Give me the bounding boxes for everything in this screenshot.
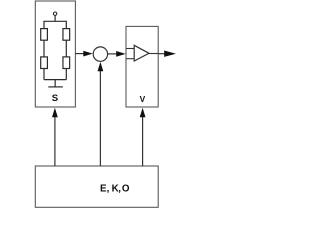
- wire amp output: [149, 53, 158, 55]
- output arrow: [158, 51, 176, 57]
- block E,K,O (influence quantities box): [35, 166, 158, 207]
- block S (sensor box): [35, 1, 75, 107]
- wire amp input upper: [126, 48, 134, 50]
- label E, K, O: [100, 184, 130, 195]
- label V: [140, 94, 146, 104]
- svg-text:S: S: [52, 93, 59, 104]
- wire terminal to top rail: [54, 16, 56, 22]
- resistor R4: [63, 57, 70, 69]
- wire right branch lower: [65, 69, 67, 80]
- summing junction: [93, 47, 107, 61]
- wire junction to amplifier arrow: [108, 51, 126, 57]
- wire S output arrow to junction: [75, 51, 92, 57]
- wire amp input lower: [126, 58, 134, 60]
- wire left branch lower: [43, 69, 45, 80]
- resistor R3: [63, 29, 70, 41]
- block V (amplifier box): [126, 26, 158, 107]
- op-amp triangle: [134, 45, 149, 61]
- wire rail to ground: [54, 80, 56, 87]
- resistor R1: [41, 29, 48, 41]
- resistor R2: [41, 57, 48, 69]
- wire left branch middle: [43, 40, 45, 57]
- svg-text:V: V: [140, 94, 146, 104]
- wire top rail: [44, 20, 66, 22]
- wire E,K,O to V arrow: [140, 108, 146, 166]
- label S: [52, 93, 59, 104]
- svg-text:E,K,O: E,K,O: [100, 184, 130, 195]
- wire bottom rail: [44, 79, 66, 81]
- ground: [48, 86, 63, 88]
- wire right branch upper: [65, 21, 67, 29]
- wire right branch middle: [65, 40, 67, 57]
- wire E,K,O to S arrow: [52, 108, 58, 166]
- bridge supply terminal: [53, 12, 56, 15]
- wire left branch upper: [43, 21, 45, 29]
- wire E,K,O to junction arrow: [98, 62, 104, 166]
